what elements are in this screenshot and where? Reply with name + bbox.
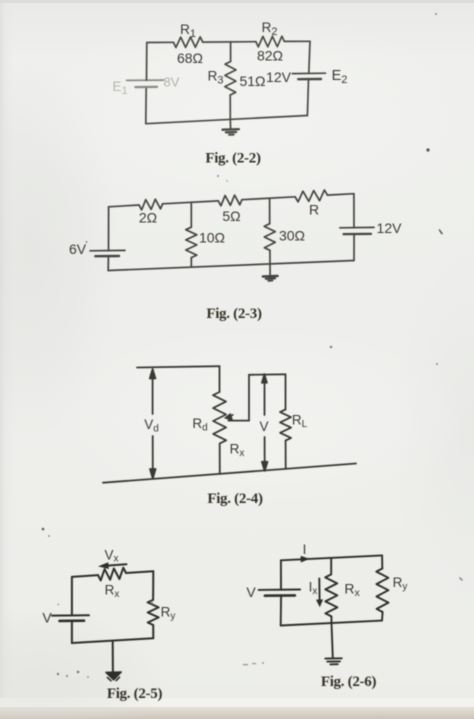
battery V positive plate	[259, 589, 301, 591]
wire Fig2-4 RL branch lower	[285, 441, 287, 469]
wire Fig2-2 left lower	[145, 87, 147, 123]
battery V negative plate	[60, 619, 85, 622]
wire Fig2-4 RL branch upper	[285, 374, 287, 409]
wire Fig2-5 bottom	[72, 638, 153, 643]
svg-text:82Ω: 82Ω	[257, 48, 283, 64]
ground Fig2-2 symbol	[223, 128, 239, 131]
ground Fig2-6 earth bar 2	[327, 660, 340, 662]
resistor R2	[256, 36, 284, 47]
wire Fig2-5 left upper	[71, 577, 73, 616]
resistor Ry	[376, 569, 388, 613]
svg-text:8V: 8V	[164, 75, 180, 90]
wire Fig2-6 left upper	[280, 560, 282, 589]
svg-text:R: R	[309, 202, 319, 218]
wire Fig2-2 right lower	[307, 79, 308, 115]
wire Fig2-2 bottom	[146, 116, 308, 124]
battery 6V positive plate	[90, 249, 125, 251]
resistor Rx	[98, 568, 126, 581]
ground Fig2-6 earth bar 3	[330, 663, 337, 665]
battery 12V negative plate	[344, 233, 372, 235]
battery V positive plate	[52, 614, 89, 616]
wire Fig2-5 right lower	[152, 625, 154, 638]
current arrow Ix head	[316, 599, 323, 607]
battery E1 positive plate (faded)	[127, 79, 164, 81]
wire Fig2-3 branch 30 ohm lower	[269, 250, 271, 264]
battery 6V negative plate	[95, 255, 119, 258]
ground Fig2-3 symbol	[263, 275, 278, 278]
ground Fig2-6 earth bar 1	[325, 657, 342, 659]
wire Fig2-3 branch 10 ohm lower	[190, 258, 192, 268]
svg-text:V: V	[42, 610, 52, 626]
svg-text:12V: 12V	[266, 69, 292, 85]
battery E1 negative plate (faded)	[135, 86, 157, 88]
resistor R3	[225, 62, 236, 96]
wire Fig2-6 right upper	[381, 555, 383, 568]
wire Fig2-4 top-right horizontal	[249, 373, 286, 376]
arrow Vd head down	[150, 469, 156, 479]
arrow V head up	[262, 374, 267, 383]
svg-text:12V: 12V	[377, 220, 403, 236]
ground Fig2-2 stem	[229, 119, 231, 129]
wire Fig2-3 top segment 3	[242, 197, 295, 200]
wire Fig2-6 top	[281, 555, 382, 560]
resistor RL	[280, 410, 291, 441]
wire Fig2-3 left upper	[108, 207, 110, 251]
wire Fig2-3 top-left segment	[109, 205, 139, 207]
svg-text:Fig. (2-4): Fig. (2-4)	[207, 491, 263, 507]
wire Fig2-2 left upper	[146, 43, 148, 81]
battery E2 negative plate	[298, 78, 321, 81]
battery V negative plate	[265, 594, 295, 597]
svg-text:Fig. (2-2): Fig. (2-2)	[205, 151, 261, 167]
wire Fig2-3 right upper	[353, 194, 355, 228]
arrow Vd head up	[150, 369, 156, 379]
wire Fig2-4 ground rail (slanted)	[103, 464, 356, 483]
ground Fig2-5 arrow symbol	[106, 672, 121, 680]
ground Fig2-3 stem	[269, 264, 271, 276]
svg-text:51Ω: 51Ω	[239, 73, 265, 89]
svg-text:Fig. (2-3): Fig. (2-3)	[206, 306, 262, 322]
ground Fig2-6 stem	[332, 623, 333, 658]
wire Fig2-4 top	[137, 366, 220, 367]
wire Fig2-2 top-middle segment	[203, 41, 256, 43]
resistor 30 ohm	[264, 224, 275, 251]
wire Fig2-5 right upper	[152, 571, 154, 600]
wire Fig2-4 Rd branch lower	[219, 444, 221, 474]
resistor R	[295, 190, 327, 202]
wire Fig2-3 branch 10 ohm upper	[190, 202, 192, 227]
resistor Ry	[148, 600, 159, 625]
svg-text:68Ω: 68Ω	[177, 50, 203, 66]
wire tap horizontal	[229, 420, 250, 422]
resistor Rx	[325, 574, 337, 616]
wiper arrowhead	[224, 413, 234, 422]
svg-text:V: V	[259, 419, 268, 434]
svg-text:I: I	[303, 542, 307, 557]
arrow V head down	[262, 462, 268, 471]
wire Fig2-4 Rd branch upper	[219, 366, 221, 392]
wire Fig2-5 top-left segment	[72, 575, 98, 577]
arrow V shaft lower	[264, 437, 266, 468]
svg-text:6V: 6V	[69, 241, 87, 257]
wire Fig2-2 middle branch lower	[229, 95, 231, 119]
svg-text:Fig. (2-6): Fig. (2-6)	[321, 674, 377, 690]
wire Fig2-2 right upper	[309, 41, 310, 73]
battery E2 positive plate	[292, 72, 325, 74]
wire tap vertical riser	[248, 375, 250, 421]
wire Fig2-2 top-right segment	[284, 40, 310, 42]
wire Fig2-2 top-left segment	[147, 41, 174, 43]
wire Fig2-3 right lower	[353, 234, 355, 260]
resistor 10 ohm	[186, 227, 197, 257]
wire Fig2-3 left lower	[107, 256, 109, 270]
wire Fig2-3 bottom	[108, 261, 354, 271]
current arrow Ix shaft	[318, 579, 320, 601]
svg-text:V: V	[246, 584, 256, 600]
svg-text:5Ω: 5Ω	[222, 208, 240, 224]
wire Fig2-6 Rx branch lower	[330, 616, 332, 623]
wire Fig2-3 top-right segment	[327, 194, 354, 195]
resistor 5 ohm	[218, 195, 242, 206]
potentiometer Rd	[213, 392, 226, 444]
wire Fig2-2 middle branch upper	[230, 42, 232, 62]
svg-text:2Ω: 2Ω	[139, 210, 157, 226]
arrow Vd shaft upper	[152, 372, 154, 414]
resistor 2 ohm	[139, 199, 163, 210]
wire Fig2-5 left lower	[71, 621, 73, 643]
svg-text:10Ω: 10Ω	[199, 230, 225, 246]
resistor R1	[173, 37, 202, 48]
arrow Vx shaft	[102, 564, 127, 566]
wire Fig2-3 top segment 2	[163, 201, 219, 204]
svg-text:Fig. (2-5): Fig. (2-5)	[107, 686, 163, 702]
svg-text:30Ω: 30Ω	[279, 228, 305, 244]
wire Fig2-6 Rx branch upper	[330, 558, 332, 575]
arrow Vd shaft lower	[152, 436, 154, 476]
arrow V shaft upper	[264, 379, 266, 415]
ground Fig2-5 stem	[112, 642, 114, 672]
wire Fig2-5 top-right segment	[126, 571, 153, 573]
current arrow I head	[301, 556, 310, 563]
wire Fig2-6 left lower	[280, 596, 282, 626]
wiper arrow of Rd	[229, 415, 233, 417]
battery 12V positive plate	[340, 226, 374, 228]
wire Fig2-6 right lower	[381, 612, 384, 621]
arrow Vx head	[98, 562, 109, 569]
wire Fig2-3 branch 30 ohm upper	[269, 198, 271, 224]
wire Fig2-6 bottom	[281, 621, 382, 626]
